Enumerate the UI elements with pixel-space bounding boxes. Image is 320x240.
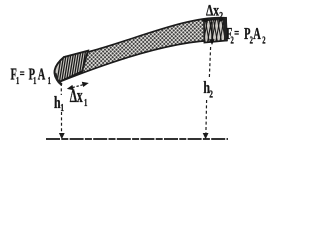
label h2 bbox=[203, 79, 213, 100]
svg-text:=: = bbox=[20, 66, 25, 82]
label F1 = P1A1 bbox=[11, 65, 51, 87]
dx2 double-headed arrow bbox=[206, 19, 220, 21]
pipe body (curved tube) bbox=[55, 18, 227, 82]
h1 arrowhead bbox=[59, 133, 65, 139]
dx1 double-headed arrow bbox=[73, 85, 85, 88]
svg-text:A: A bbox=[38, 65, 46, 83]
svg-text:1: 1 bbox=[84, 96, 88, 108]
h2 arrowhead bbox=[203, 133, 209, 139]
svg-text:1: 1 bbox=[33, 74, 36, 86]
label h1 bbox=[54, 94, 64, 113]
svg-text:h: h bbox=[54, 94, 61, 113]
baseline (reference level) bbox=[46, 138, 228, 140]
label dx1 bbox=[70, 86, 88, 108]
inked bottom tip of pipe inlet cap bbox=[56, 74, 62, 84]
label dx2 bbox=[206, 3, 223, 22]
svg-text:2: 2 bbox=[209, 88, 213, 100]
svg-text:1: 1 bbox=[16, 75, 19, 87]
svg-text:2: 2 bbox=[230, 34, 233, 46]
h2 arrow inside right element bbox=[211, 22, 213, 41]
svg-text:1: 1 bbox=[48, 75, 51, 87]
h2 dashed vertical line bbox=[209, 47, 210, 79]
svg-text:A: A bbox=[253, 24, 261, 42]
svg-text:2: 2 bbox=[219, 10, 223, 21]
svg-text:Δx: Δx bbox=[206, 3, 219, 20]
h1 dashed vertical line bbox=[60, 83, 62, 95]
svg-text:1: 1 bbox=[60, 102, 64, 114]
heavy inked right edge of element bbox=[225, 18, 226, 41]
right fluid element (hatched) bbox=[199, 16, 233, 44]
svg-text:2: 2 bbox=[250, 34, 253, 46]
svg-text:Δx: Δx bbox=[70, 86, 83, 106]
label F2 = P2A2 bbox=[226, 24, 266, 46]
left fluid element (hatched) bbox=[52, 48, 92, 87]
svg-text:=: = bbox=[234, 25, 239, 41]
svg-text:2: 2 bbox=[262, 34, 265, 46]
